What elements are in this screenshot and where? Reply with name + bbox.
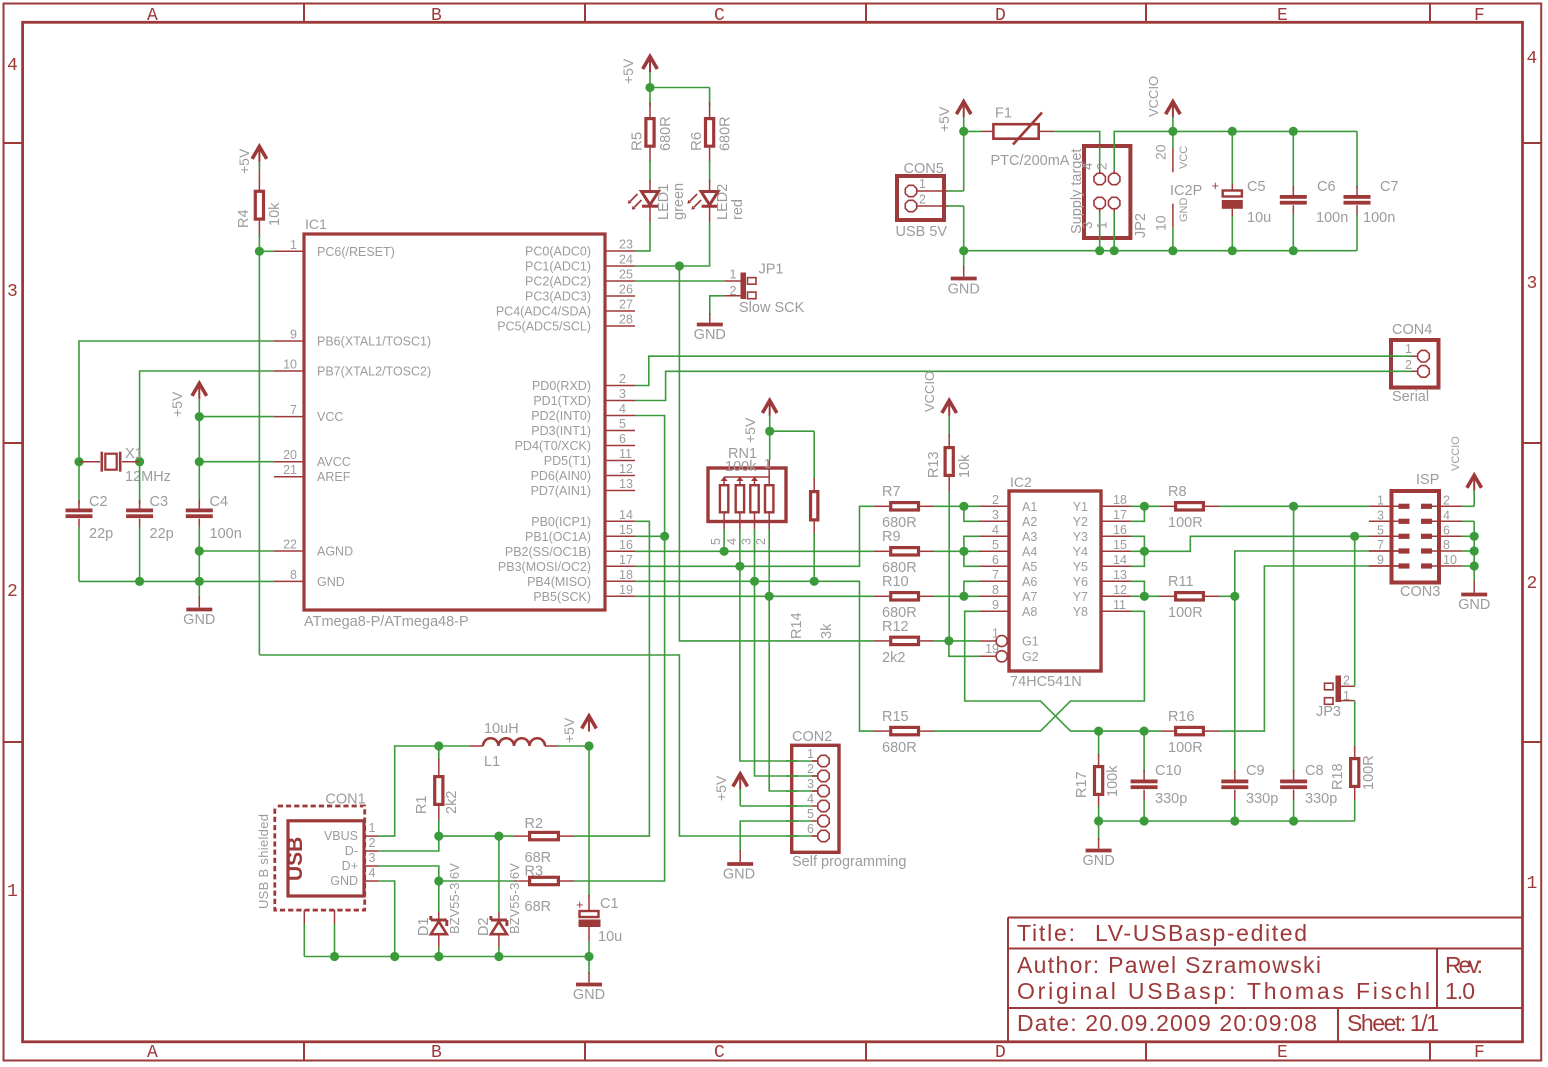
svg-text:A5: A5 [1022,560,1037,574]
ic IC1 pin 12 PD6(AIN0) [531,462,635,483]
svg-text:ATmega8-P/ATmega48-P: ATmega8-P/ATmega48-P [304,614,469,630]
fuse F1 [964,106,1070,170]
ic IC1 pin 6 PD4(T0/XCK) [515,432,635,453]
svg-text:15: 15 [1113,538,1127,552]
svg-text:PC5(ADC5/SCL): PC5(ADC5/SCL) [497,320,591,334]
connector CON1 pin 2 D- [345,836,379,858]
svg-text:2k2: 2k2 [882,650,905,666]
wire Y1-Y2 tie [1131,506,1144,521]
junction A1 node [959,502,968,511]
junction AVCC [195,457,204,466]
svg-text:14: 14 [1113,553,1127,567]
frame row labels left [7,56,18,902]
svg-text:13: 13 [619,477,633,491]
svg-text:1: 1 [1343,689,1350,703]
svg-text:PB4(MISO): PB4(MISO) [527,575,591,589]
svg-text:R15: R15 [882,709,909,725]
junction +5V F1 [959,127,968,136]
svg-text:4: 4 [725,538,739,545]
svg-text:R17: R17 [1074,771,1090,798]
svg-text:2: 2 [369,836,376,850]
svg-text:A1: A1 [1022,500,1037,514]
svg-text:LED2: LED2 [715,184,731,220]
label R5 [0,0,1,1]
svg-text:10: 10 [1443,553,1457,567]
ground under R17 [1082,821,1114,869]
svg-text:3k: 3k [819,623,835,639]
connector CON3 pin 9 [1369,553,1410,569]
text Supply target [1069,149,1085,234]
svg-text:2: 2 [7,582,18,602]
svg-text:1: 1 [1405,342,1412,356]
ground under C4 [183,581,215,628]
connector CON5 label [896,224,948,240]
ic IC1 pin 9 PB6(XTAL1/TOSC1) [274,328,431,349]
wire LED1 to PC0 [635,222,650,251]
svg-text:Rev:: Rev: [1445,952,1483,978]
junction C6 top [1289,127,1298,136]
label X crossing none [0,0,1,1]
connector CON2 pin 5 [807,807,829,827]
svg-text:3: 3 [619,387,626,401]
junction RN1 pin5 on PB2 [720,547,729,556]
ic IC2 pin 8 A7 [979,583,1037,604]
svg-text:VCC: VCC [1178,146,1190,169]
svg-text:2: 2 [1527,574,1538,594]
wire net PC1 vertical [679,266,874,641]
power VCCIO arrow at ISP [1450,436,1482,491]
svg-text:6: 6 [992,553,999,567]
svg-text:4: 4 [7,56,18,76]
svg-text:Y6: Y6 [1073,575,1088,589]
svg-text:20: 20 [1153,144,1169,160]
wire AGND to IC1 pin22 [199,550,274,552]
svg-text:A7: A7 [1022,590,1037,604]
svg-text:5: 5 [807,807,814,821]
svg-text:100R: 100R [1168,515,1203,531]
svg-text:10uH: 10uH [484,721,519,737]
junction C5 bottom [1228,246,1237,255]
svg-text:8: 8 [1443,538,1450,552]
svg-text:PB1(OC1A): PB1(OC1A) [525,530,591,544]
svg-text:20: 20 [283,448,297,462]
junction rail pin4 [390,952,399,961]
svg-text:4: 4 [992,523,999,537]
connector CON4 pin 1 [1405,342,1429,362]
ic IC2 pin 19 G2 [979,642,1039,664]
svg-text:10u: 10u [1247,210,1271,226]
ic IC1 pin 14 PB0(ICP1) [531,508,635,529]
svg-text:15: 15 [619,523,633,537]
wire net D+ PD2 riser [574,416,665,882]
svg-text:330p: 330p [1246,791,1278,807]
svg-text:R12: R12 [882,619,909,635]
wire gnd rail top right [964,250,1357,252]
wire ISP ground column [1462,521,1474,580]
svg-text:CON2: CON2 [792,729,832,745]
svg-text:68R: 68R [525,899,552,915]
capacitor C4 [186,494,242,581]
svg-text:2: 2 [1095,162,1110,170]
ic IC1 pin 23 PC0(ADC0) [525,238,635,259]
frame row ticks left [4,143,23,742]
svg-text:GND: GND [573,987,605,1003]
svg-text:G2: G2 [1022,650,1039,664]
resistor R17 [1074,731,1121,821]
resistor R18 [1330,701,1377,821]
junction rail C10 [1140,816,1149,825]
svg-text:1: 1 [7,882,18,902]
svg-text:27: 27 [619,298,633,312]
resistor R9 [874,529,934,576]
svg-text:19: 19 [619,583,633,597]
junction G1 node [944,636,953,645]
resistor R13 [926,415,973,641]
svg-text:100R: 100R [1168,605,1203,621]
wire overlays across CON4 border [1386,356,1398,371]
junction gnd CON5 [959,246,968,255]
svg-text:10u: 10u [598,929,622,945]
svg-text:C6: C6 [1317,179,1336,195]
ic IC2 pin 14 Y5 [1073,553,1131,574]
svg-text:4: 4 [1443,508,1450,522]
ground usb rail [573,957,605,1004]
ic IC2 pin 2 A1 [979,493,1037,514]
ic IC1 pin 19 PB5(SCK) [533,583,635,604]
wire PD0 to CON4 pin1 [635,356,1417,385]
svg-text:2: 2 [807,762,814,776]
wire R10 to A7 [934,595,979,597]
connector CON2 pin 3 [807,777,829,797]
svg-text:BZV55-3.6V: BZV55-3.6V [507,863,522,934]
svg-text:R8: R8 [1168,484,1187,500]
svg-text:1: 1 [919,177,926,191]
svg-text:F1: F1 [995,106,1012,122]
svg-text:12: 12 [1113,583,1127,597]
ic IC1 pin 7 VCC [274,403,343,424]
svg-text:+5V: +5V [169,391,185,417]
junction rail R17 [1094,816,1103,825]
svg-text:9: 9 [1377,553,1384,567]
ic IC1 pin 10 PB7(XTAL2/TOSC2) [274,358,431,379]
connector CON3 pin 1 [1369,493,1410,509]
wire net RESET route to CON2 pin6 [259,655,817,836]
connector CON3 pin 6 [1421,523,1462,539]
svg-text:21: 21 [283,463,297,477]
junction A4 node [959,547,968,556]
connector CON2 pin 4 [807,792,829,812]
svg-text:GND: GND [330,874,358,888]
svg-text:GND: GND [694,327,726,343]
junction C5 top [1228,127,1237,136]
connector CON3 body [1392,491,1440,583]
svg-text:2: 2 [992,493,999,507]
wire Y1 out [1131,505,1159,507]
connector CON1 usb box [288,821,364,896]
svg-text:IC2: IC2 [1010,474,1032,490]
junction A7 node [959,592,968,601]
svg-text:PB0(ICP1): PB0(ICP1) [531,515,591,529]
ground at CON2 [723,850,755,883]
svg-text:12: 12 [619,462,633,476]
svg-text:Date: 20.09.2009 20:09:08: Date: 20.09.2009 20:09:08 [1017,1010,1317,1036]
ic IC1 pin 26 PC3(ADC3) [525,283,635,304]
date text [1017,1010,1317,1036]
jumper JP2 pin 2 [1095,146,1120,185]
svg-text:D: D [995,1043,1006,1063]
junction D+ PB1 [660,532,669,541]
svg-text:680R: 680R [882,605,917,621]
connector CON3 label [1400,584,1440,600]
resistor R8 [1159,484,1219,531]
svg-text:C2: C2 [89,494,108,510]
svg-text:+5V: +5V [561,717,577,743]
svg-text:R3: R3 [525,864,544,880]
ic IC1 pin 28 PC5(ADC5/SCL) [497,313,635,334]
svg-text:330p: 330p [1305,791,1337,807]
svg-text:X1: X1 [125,446,143,462]
wire JP1 pin2 to ground [710,296,724,315]
ic IC2 name label [1010,474,1032,490]
connector CON1 pin 4 GND [330,866,379,888]
jumper JP2 pin 1 [1095,197,1120,238]
jumper JP1 [724,262,804,317]
svg-text:PD3(INT1): PD3(INT1) [531,424,591,438]
junction RN1 pin4 on PB3 [735,562,744,571]
wire Y3-Y4-Y5 tie [1131,536,1144,566]
svg-text:1: 1 [764,457,771,471]
wire F1 to JP2 pin4 [1054,131,1099,147]
wire CON5 pin1 to +5V [948,117,964,191]
ic IC2 pin 13 Y6 [1073,568,1131,589]
svg-text:+5V: +5V [742,417,758,443]
svg-text:LED1: LED1 [656,184,672,220]
svg-text:A: A [147,6,158,26]
svg-text:PD0(RXD): PD0(RXD) [532,379,591,393]
svg-text:GND: GND [1458,597,1490,613]
svg-text:7: 7 [1377,538,1384,552]
svg-text:17: 17 [1113,508,1127,522]
wire R16 to ISP pin9 MISO [1219,566,1399,731]
frame column labels top [147,6,1485,26]
svg-text:2: 2 [619,372,626,386]
svg-text:CON4: CON4 [1392,322,1432,338]
wire PB7 to crystal [140,371,274,462]
junction C10 tap [1140,727,1149,736]
svg-text:PB3(MOSI/OC2): PB3(MOSI/OC2) [498,560,591,574]
junction RESET at R4 [255,247,264,256]
svg-text:PC6(/RESET): PC6(/RESET) [317,245,395,259]
svg-text:C3: C3 [150,494,169,510]
power +5V arrow above R4 [236,146,267,174]
connector CON2 name [792,729,832,745]
svg-text:PB7(XTAL2/TOSC2): PB7(XTAL2/TOSC2) [317,365,431,379]
svg-text:330p: 330p [1155,791,1187,807]
wire D- to R2 [439,835,514,837]
resistor R4 [236,162,283,238]
wire D+ to R3 [439,880,514,882]
ic IC1 pin 22 AGND [274,538,353,559]
junction Y1 node [1140,502,1149,511]
wire Y8 to crossover [934,611,1144,731]
svg-text:JP3: JP3 [1316,704,1341,720]
svg-text:4: 4 [369,866,376,880]
junction RN1 pin3 on PB4 [750,577,759,586]
svg-text:1: 1 [807,747,814,761]
svg-text:Sheet: 1/1: Sheet: 1/1 [1347,1010,1439,1036]
ic IC1 body [304,234,605,610]
svg-text:PC3(ADC3): PC3(ADC3) [525,290,591,304]
connector CON1 pin 3 D+ [342,851,379,873]
wire PC2 to JP1 pin1 [635,280,724,282]
jumper JP2 body [1084,146,1130,238]
svg-text:VCCIO: VCCIO [922,371,937,412]
svg-text:22p: 22p [150,526,174,542]
svg-text:D: D [995,6,1006,26]
wire ISP pin2 to VCCIO [1462,490,1474,506]
junction crystal right [135,457,144,466]
wire AVCC to IC1 pin20 [199,461,274,463]
jumper JP2 label [1133,213,1149,238]
wire A3-A4-A5 tie [964,536,979,566]
svg-text:R7: R7 [882,484,901,500]
ic IC2 pin 3 A2 [979,508,1037,529]
svg-text:D2: D2 [476,917,492,936]
svg-text:PD2(INT0): PD2(INT0) [531,409,591,423]
svg-text:AVCC: AVCC [317,455,351,469]
ic IC2 pin 17 Y2 [1073,508,1131,529]
wire overlays across CON2 border [786,761,798,836]
svg-text:BZV55-3.6V: BZV55-3.6V [447,863,462,934]
connector CON5 pin 1 [905,177,948,197]
resistor R12 [874,619,934,666]
svg-text:Y7: Y7 [1073,590,1088,604]
wire D1 connections [438,881,440,957]
resistor R7 [874,484,934,531]
svg-text:C: C [714,1043,725,1063]
svg-text:24: 24 [619,253,633,267]
connector CON3 name [1416,472,1439,488]
ic IC1 pin 8 GND [274,568,345,589]
connector CON4 name [1392,322,1432,338]
wire VCCIO rail top [1173,117,1357,131]
svg-text:26: 26 [619,283,633,297]
connector CON5 pin 2 [905,193,948,212]
junction RN1 supply [765,427,774,436]
wire net D- PB0 riser [574,521,649,836]
svg-text:USB 5V: USB 5V [896,224,948,240]
svg-text:GND: GND [183,612,215,628]
svg-text:8: 8 [290,568,297,582]
svg-text:C10: C10 [1155,763,1182,779]
svg-text:100n: 100n [210,526,242,542]
jumper JP2 pin 3 [1080,197,1105,238]
ic IC1 pin 1 PC6(/RESET) [274,238,395,259]
ic IC1 pin 11 PD5(T1) [544,447,635,468]
wire VCC net vertical [198,399,200,500]
svg-text:2: 2 [919,193,926,207]
ic IC1 pin 2 PD0(RXD) [532,372,635,393]
svg-text:100k: 100k [725,459,757,475]
svg-text:Y8: Y8 [1073,605,1088,619]
connector CON1 shield box [275,806,365,910]
junction L1 in [434,741,443,750]
wire PB5 row to R10 [635,595,874,597]
svg-text:9: 9 [992,598,999,612]
text USB B shielded [256,814,271,909]
ic IC1 value label [304,614,469,630]
svg-text:D+: D+ [342,859,358,873]
capacitor C10 [1131,731,1188,821]
capacitor C8 [1280,506,1337,821]
svg-text:5: 5 [1377,523,1384,537]
svg-text:R13: R13 [926,451,942,478]
junction VCCIO rail [1168,127,1177,136]
resistor R5 and led LED1 [628,102,687,222]
svg-text:25: 25 [619,268,633,282]
svg-text:10k: 10k [957,454,973,478]
wire net RESET vertical [258,162,260,655]
power +5V arrow RN1 [742,401,777,444]
wire A6-A7 tie [964,581,979,596]
ic IC1 pin 15 PB1(OC1A) [525,523,635,544]
svg-text:PC4(ADC4/SDA): PC4(ADC4/SDA) [496,305,591,319]
svg-text:3: 3 [739,538,753,545]
resistor R2 [514,816,574,866]
svg-text:PD7(AIN1): PD7(AIN1) [531,484,591,498]
svg-text:R4: R4 [236,209,252,228]
junction R17 tap [1094,727,1103,736]
connector CON4 pin 2 [1405,358,1429,377]
svg-text:Y5: Y5 [1073,560,1088,574]
svg-text:1: 1 [1095,221,1110,229]
svg-text:Slow SCK: Slow SCK [739,300,805,316]
wire filter ground rail [1099,820,1355,822]
svg-text:PD4(T0/XCK): PD4(T0/XCK) [515,439,591,453]
svg-text:C9: C9 [1246,763,1265,779]
ic IC2 pin 4 A3 [979,523,1037,544]
junction L1 out [584,741,593,750]
svg-text:11: 11 [1113,598,1126,612]
svg-text:R16: R16 [1168,709,1195,725]
svg-text:1: 1 [730,268,737,282]
wire JP2 pin2 to VCCIO [1114,131,1173,146]
capacitor C6 [1280,131,1348,250]
svg-text:R1: R1 [414,795,430,814]
svg-text:2: 2 [1405,358,1412,372]
svg-text:R10: R10 [882,574,909,590]
power VCCIO arrow R13 [922,371,957,416]
ic IC1 pin 4 PD2(INT0) [531,402,635,423]
wire Y6-Y7 tie [1131,581,1144,596]
svg-text:1: 1 [1527,874,1538,894]
ic IC2 pin 15 Y4 [1073,538,1131,559]
svg-text:2k2: 2k2 [444,791,460,814]
wire analog ground rail [79,580,274,582]
wire CON2 pin5 to ground [740,821,812,852]
resistor R15 [874,709,934,756]
svg-text:1: 1 [1377,493,1384,507]
svg-text:PB2(SS/OC1B): PB2(SS/OC1B) [505,545,591,559]
wire G1 to G2 tie [949,641,979,656]
svg-text:10k: 10k [267,202,283,226]
svg-text:VBUS: VBUS [324,829,358,843]
wire +5V down to C1 [588,746,590,897]
svg-text:17: 17 [619,553,633,567]
power +5V arrow CON5 [936,102,971,132]
ic IC1 pin 5 PD3(INT1) [531,417,635,438]
svg-text:USB: USB [284,837,307,881]
